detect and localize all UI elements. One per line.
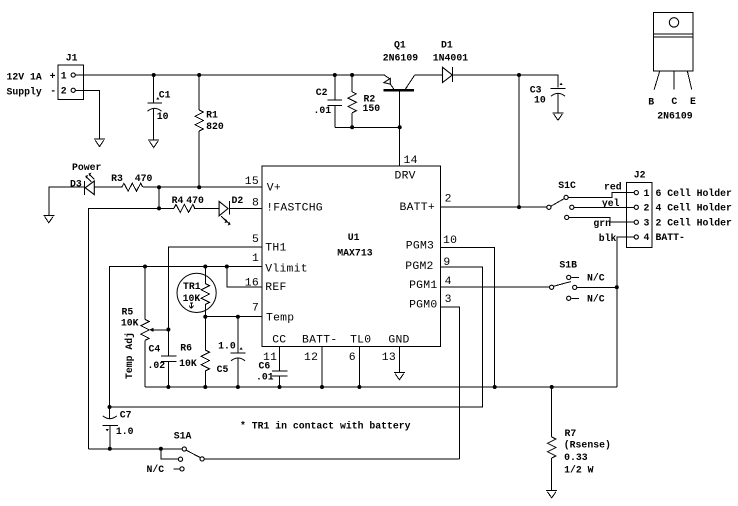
capacitor C1 — [147, 75, 170, 140]
svg-text:2: 2 — [61, 86, 67, 97]
wire PGM1 pin 4 to S1B — [441, 286, 550, 288]
junction TR1 bottom Temp — [203, 315, 207, 319]
svg-text:10K: 10K — [179, 358, 197, 369]
junction R2 top — [350, 73, 354, 77]
svg-text:B: B — [648, 96, 654, 107]
svg-text:U1: U1 — [348, 232, 360, 243]
junction Q1 base wire — [398, 125, 402, 129]
svg-text:PGM0: PGM0 — [409, 300, 437, 312]
wire ground to D3 — [49, 187, 85, 215]
svg-text:470: 470 — [186, 195, 204, 206]
switch S1B — [550, 259, 579, 300]
svg-text:10: 10 — [157, 111, 169, 122]
svg-text:N/C: N/C — [147, 464, 165, 475]
resistor R7 — [548, 387, 611, 491]
svg-text:6: 6 — [349, 352, 356, 364]
svg-text:10K: 10K — [121, 318, 139, 329]
wire C2/R2 bottoms to Q1 base — [335, 126, 400, 128]
svg-text:TH1: TH1 — [265, 243, 286, 255]
transistor package drawing 2N6109 — [648, 13, 696, 122]
junction C4 bottom — [166, 385, 170, 389]
svg-text:S1C: S1C — [558, 180, 576, 191]
wire BATT- pin 12 — [321, 346, 323, 387]
wire D1 to C3 corner — [453, 75, 558, 88]
svg-text:10: 10 — [443, 235, 457, 247]
svg-text:1/2 W: 1/2 W — [564, 464, 594, 475]
capacitor C7 — [103, 407, 134, 449]
wire REF pin 16 to Vlimit — [227, 267, 262, 288]
svg-text:C7: C7 — [120, 409, 132, 420]
svg-text:CC: CC — [272, 334, 286, 346]
svg-text:.01: .01 — [314, 105, 332, 116]
ground D3 — [43, 215, 54, 222]
svg-text:PGM2: PGM2 — [405, 261, 433, 273]
wire yel S1C to J2 pin2 — [574, 206, 634, 208]
wire R4 row left segment — [89, 208, 174, 448]
svg-text:Temp Adj: Temp Adj — [124, 332, 135, 379]
junction pin2-C3 vertical — [517, 205, 521, 209]
svg-text:820: 820 — [206, 121, 224, 132]
potentiometer R5 — [121, 267, 168, 388]
svg-text:Temp: Temp — [266, 313, 294, 325]
wire S1A second throw jog — [161, 449, 179, 459]
wire BATT+ pin 2 to S1C — [441, 206, 547, 208]
junction pin6 bottom — [357, 385, 361, 389]
node supply label — [7, 71, 57, 97]
svg-text:1: 1 — [61, 71, 67, 82]
svg-text:C5: C5 — [217, 364, 229, 375]
svg-text:V+: V+ — [267, 182, 281, 194]
svg-text:(Rsense): (Rsense) — [564, 440, 611, 451]
svg-text:14: 14 — [404, 155, 418, 167]
wire C7 bottom rail to S1A — [89, 448, 182, 450]
svg-text:4: 4 — [644, 232, 650, 243]
ground C3 — [553, 113, 564, 120]
svg-text:470: 470 — [135, 173, 153, 184]
svg-text:S1B: S1B — [559, 259, 577, 270]
svg-text:10K: 10K — [183, 293, 201, 304]
resistor R2 — [348, 75, 380, 127]
svg-text:12: 12 — [304, 352, 318, 364]
switch S1A — [174, 430, 205, 471]
junction R1 top — [197, 73, 201, 77]
svg-text:12V 1A: 12V 1A — [7, 71, 42, 82]
svg-text:C4: C4 — [149, 344, 161, 355]
svg-text:D1: D1 — [441, 39, 453, 50]
junction REF-Vlimit — [225, 265, 229, 269]
junction S1B-R7 vertical — [615, 285, 619, 289]
junction C1 top — [152, 73, 156, 77]
svg-text:1.0: 1.0 — [116, 426, 134, 437]
op-amp U1 MAX713 IC body — [262, 166, 441, 347]
ground C1 — [148, 140, 159, 147]
svg-text:C: C — [671, 96, 677, 107]
svg-text:R1: R1 — [206, 110, 218, 121]
capacitor C3 — [530, 83, 566, 113]
svg-text:C6: C6 — [259, 361, 271, 372]
wire red S1C to J2 pin1 — [568, 193, 634, 198]
svg-text:R4: R4 — [172, 195, 184, 206]
wire GND pin 13 — [398, 346, 400, 372]
junction R2 bottom — [350, 125, 354, 129]
junction C6 bottom — [278, 385, 282, 389]
svg-text:* TR1 in contact with battery: * TR1 in contact with battery — [240, 420, 411, 431]
svg-text:MAX713: MAX713 — [337, 247, 372, 258]
thermistor TR1 — [177, 267, 216, 317]
svg-text:R7: R7 — [565, 428, 577, 439]
wire S1B throw to R7 net — [577, 286, 617, 288]
LED D2 — [219, 195, 243, 226]
svg-text:Supply: Supply — [7, 86, 42, 97]
wire PGM2 pin 9 — [110, 267, 483, 407]
svg-text:BATT+: BATT+ — [400, 202, 435, 214]
wire bottom rail — [145, 386, 617, 388]
svg-text:R3: R3 — [111, 173, 123, 184]
svg-text:7: 7 — [252, 302, 259, 314]
wire D2 to IC pin 8 — [229, 207, 262, 209]
wire R4 to D2 — [194, 207, 219, 209]
svg-text:Power: Power — [72, 162, 102, 173]
junction R6 bottom — [203, 385, 207, 389]
wire Vlimit pin 1 — [110, 267, 263, 408]
junction BATT+ vertical top — [517, 73, 521, 77]
svg-text:D3: D3 — [70, 178, 82, 189]
svg-text:5: 5 — [252, 234, 259, 246]
transistor Q1 — [383, 39, 418, 165]
junction R7 top — [550, 385, 554, 389]
svg-text:2: 2 — [644, 203, 650, 214]
junction PGM3 bottom — [493, 385, 497, 389]
svg-text:1N4001: 1N4001 — [433, 52, 468, 63]
svg-text:D2: D2 — [232, 195, 244, 206]
svg-text:2N6109: 2N6109 — [657, 110, 692, 121]
svg-text:1: 1 — [644, 188, 650, 199]
svg-text:+: + — [50, 71, 56, 82]
junction V+ rail x159 — [157, 185, 161, 189]
wire grn S1C to J2 pin3 — [569, 217, 634, 222]
wire J1 pin2 to ground — [75, 90, 99, 139]
svg-text:1: 1 — [252, 253, 259, 265]
svg-text:BATT-: BATT- — [656, 232, 685, 243]
svg-text:N/C: N/C — [587, 273, 605, 284]
svg-text:15: 15 — [245, 176, 259, 188]
wire PGM3 pin 10 — [441, 247, 495, 387]
junction pin12 bottom — [320, 385, 324, 389]
wire TH1 pin 5 — [168, 247, 262, 330]
wire R3 to IC pin 15 — [143, 186, 262, 188]
junction C5 bottom — [236, 385, 240, 389]
connector J2 — [627, 170, 652, 248]
svg-text:.01: .01 — [256, 371, 274, 382]
junction C2 top — [333, 73, 337, 77]
svg-text:150: 150 — [363, 103, 381, 114]
svg-text:C2: C2 — [316, 87, 328, 98]
svg-text:S1A: S1A — [174, 430, 192, 441]
wire Q1 collector to D1 — [414, 74, 442, 76]
svg-text:E: E — [690, 96, 696, 107]
svg-text:6 Cell Holder: 6 Cell Holder — [656, 188, 733, 199]
junction TH1-wiper-C4 — [166, 328, 170, 332]
svg-text:-: - — [50, 85, 56, 96]
ground J1 — [94, 139, 105, 146]
junction C7 bottom — [108, 447, 112, 451]
svg-text:Vlimit: Vlimit — [265, 264, 308, 276]
junction S1A feed — [159, 447, 163, 451]
svg-text:J1: J1 — [66, 52, 78, 63]
junction TR1 top — [203, 265, 207, 269]
svg-text:R5: R5 — [122, 307, 134, 318]
svg-text:3: 3 — [644, 217, 650, 228]
wire PGM0 pin 3 — [441, 307, 460, 459]
wire D3 to R3 — [94, 186, 122, 188]
svg-text:2: 2 — [445, 194, 452, 206]
svg-text:yel: yel — [602, 198, 620, 209]
svg-text:4: 4 — [445, 276, 452, 288]
svg-text:4 Cell Holder: 4 Cell Holder — [656, 203, 733, 214]
capacitor C4 — [148, 330, 177, 388]
svg-text:blk: blk — [599, 233, 617, 244]
svg-text:TR1: TR1 — [183, 281, 201, 292]
svg-text:R6: R6 — [180, 343, 192, 354]
diode D1 — [433, 39, 468, 82]
svg-text:PGM1: PGM1 — [409, 280, 437, 292]
svg-text:13: 13 — [382, 352, 396, 364]
svg-text:red: red — [604, 182, 622, 193]
wire V+ to R4 row — [158, 187, 160, 208]
resistor R3 — [111, 173, 152, 191]
svg-text:3: 3 — [445, 294, 452, 306]
resistor R1 — [195, 75, 224, 187]
svg-text:GND: GND — [388, 334, 409, 346]
resistor R6 — [179, 317, 209, 387]
connector J1 — [58, 52, 83, 99]
svg-text:REF: REF — [265, 282, 286, 294]
svg-text:10: 10 — [534, 94, 546, 105]
svg-text:J2: J2 — [634, 170, 646, 181]
wire Temp pin 7 — [205, 316, 262, 318]
svg-text:2N6109: 2N6109 — [383, 52, 418, 63]
ground R7 — [546, 491, 557, 498]
junction R5 top — [143, 265, 147, 269]
junction R4 row x159 — [157, 206, 161, 210]
capacitor C6 — [256, 346, 288, 387]
junction C5 top Temp — [236, 315, 240, 319]
svg-text:BATT-: BATT- — [302, 334, 337, 346]
capacitor C5 — [217, 317, 246, 387]
switch S1C — [547, 180, 576, 220]
resistor R4 — [172, 195, 204, 212]
svg-text:2 Cell Holder: 2 Cell Holder — [656, 217, 733, 228]
svg-text:0.33: 0.33 — [564, 452, 588, 463]
svg-text:Q1: Q1 — [394, 39, 406, 50]
ground GND pin — [394, 373, 405, 380]
junction Vlimit-PGM2-C7 — [108, 405, 112, 409]
wire J1 pin1 to top rail — [75, 74, 385, 76]
svg-text:1.0: 1.0 — [218, 340, 236, 351]
svg-text:PGM3: PGM3 — [406, 241, 434, 253]
LED D3 — [70, 173, 95, 196]
svg-text:N/C: N/C — [587, 294, 605, 305]
capacitor C2 — [314, 75, 343, 127]
wire TL0 pin 6 — [358, 346, 360, 387]
junction R1 bottom — [197, 185, 201, 189]
svg-text:DRV: DRV — [395, 171, 416, 183]
wire S1A pole to PGM0 — [204, 458, 459, 460]
svg-text:8: 8 — [252, 197, 259, 209]
wire blk J2 pin4 down — [617, 237, 634, 387]
wire BATT+ vertical — [518, 75, 520, 207]
svg-text:C1: C1 — [159, 90, 171, 101]
svg-text:TL0: TL0 — [350, 334, 371, 346]
svg-text:!FASTCHG: !FASTCHG — [266, 202, 323, 214]
svg-text:grn: grn — [593, 218, 611, 229]
